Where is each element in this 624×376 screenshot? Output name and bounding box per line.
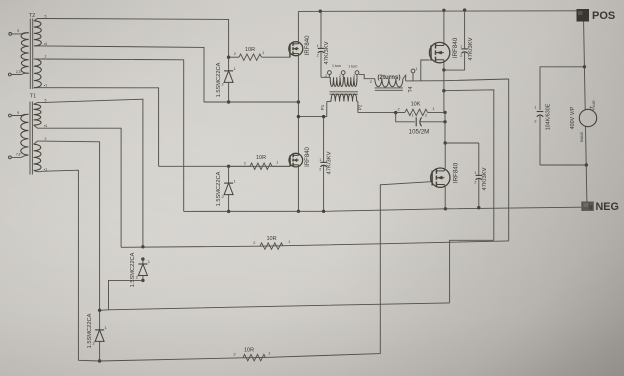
label T3 1 turn a (332, 64, 341, 68)
svg-text:▪4: ▪4 (44, 124, 47, 128)
inductor T4 winding (375, 79, 403, 87)
node bus/R5 junction (319, 10, 322, 13)
svg-text:2: 2 (317, 54, 319, 58)
wire Q1 drain to top bus (297, 11, 299, 42)
label lamp plug right (592, 100, 596, 110)
wire row A (121, 241, 509, 247)
wire M2 gate row (159, 165, 291, 167)
svg-text:1: 1 (534, 106, 536, 110)
svg-text:3: 3 (353, 74, 355, 78)
svg-text:1.5SMC22CA: 1.5SMC22CA (130, 252, 136, 287)
wire T2 pin2 to M2 source row (41, 59, 184, 211)
svg-text:1: 1 (474, 171, 476, 175)
svg-text:T1: T1 (30, 94, 36, 100)
wire bottom row (78, 354, 380, 361)
svg-text:1: 1 (432, 107, 434, 111)
wire bottom bus NEG rail (184, 207, 582, 211)
label T4 (408, 86, 414, 92)
node M1 gate junction (227, 56, 230, 59)
svg-text:9: 9 (17, 29, 19, 33)
wire Q4 drain lead (444, 143, 446, 168)
svg-text:2: 2 (474, 181, 476, 185)
svg-text:POS: POS (592, 10, 615, 22)
wire T4 row to Q3 gate (406, 79, 509, 81)
wire Q1 source to row (297, 56, 299, 103)
transformer T1 pin 2 lead (34, 137, 47, 144)
svg-text:2: 2 (233, 353, 235, 357)
transformer T1 primary bottom terminal (9, 152, 29, 158)
svg-text:2: 2 (339, 74, 341, 78)
label R6 (327, 151, 333, 174)
node R8 bottom junction (477, 206, 480, 209)
svg-text:2: 2 (253, 241, 255, 245)
resistor R8 47K/3KV (Q4) (474, 143, 482, 208)
transformer T1 pin 1 lead (34, 168, 48, 172)
transformer T1 label (30, 94, 36, 100)
wire source jog row (450, 240, 494, 303)
svg-text:T4: T4 (408, 86, 414, 92)
svg-text:1.5SMC22CA: 1.5SMC22CA (216, 171, 222, 206)
wire M1 source row (204, 101, 298, 103)
svg-text:47K/3KV: 47K/3KV (482, 167, 488, 190)
transformer T2 primary bottom terminal (8, 70, 28, 76)
resistor R9 10K (397, 102, 434, 116)
node R6 bottom junction (322, 210, 325, 213)
transformer T1 secondary winding B (34, 144, 41, 170)
wire T4 left link to T3 (359, 74, 375, 84)
transformer T2 label (29, 13, 35, 19)
capacitor C1 105/2M (396, 113, 445, 136)
svg-text:104K/630E: 104K/630E (546, 103, 552, 130)
wire T3 P1 lead (320, 102, 327, 117)
node Q2 drain junction (297, 115, 300, 118)
wire D3 bottom jog (109, 280, 143, 309)
transformer T1 primary top terminal (9, 111, 29, 117)
transformer T2 secondary winding B (34, 59, 41, 88)
svg-text:47K/3KV: 47K/3KV (327, 151, 333, 174)
svg-text:PLUG: PLUG (592, 100, 596, 110)
svg-text:1 turn: 1 turn (348, 64, 357, 68)
node D1 anode junction (227, 100, 230, 103)
svg-text:2,3: 2,3 (16, 70, 21, 74)
node Q4 drain junction (444, 141, 447, 144)
transformer T2 pin 1 lead (34, 84, 47, 88)
svg-text:T2: T2 (29, 13, 35, 19)
transformer T1 core (30, 102, 32, 175)
terminal T3 pin b (339, 71, 345, 78)
node R6 top junction (322, 115, 325, 118)
wire Q3 drain to bus (443, 10, 445, 43)
svg-text:▪4: ▪4 (44, 42, 47, 46)
node cap row right junction (443, 120, 446, 123)
svg-text:105/2M: 105/2M (409, 129, 430, 136)
svg-text:2: 2 (234, 52, 236, 56)
label D4 (87, 313, 93, 348)
node M1 source junction (297, 100, 300, 103)
wire row A riser to Q3 gate row (508, 79, 510, 241)
node bus/Q3 drain junction (442, 9, 445, 12)
node 10K right junction (443, 111, 446, 114)
svg-text:2: 2 (460, 54, 462, 58)
label T3 1 turn b (348, 64, 357, 68)
node 10K left junction (394, 111, 397, 114)
transformer T2 pin 5 lead (34, 15, 47, 21)
wire T1 pin4 to row A corner (41, 128, 121, 247)
svg-text:1 turn: 1 turn (332, 64, 341, 68)
wire Q4 source lead (444, 187, 446, 209)
svg-text:2: 2 (425, 113, 427, 117)
transformer T1 primary winding (21, 114, 29, 155)
transformer T2 pin 4 lead (34, 42, 47, 46)
svg-text:2: 2 (45, 55, 47, 59)
terminal T3 pin a (325, 71, 331, 78)
label Q3 (452, 37, 459, 58)
node output top junction (583, 65, 586, 68)
wire row B (100, 303, 450, 310)
wire T3 top left end (321, 76, 330, 78)
label R5 (324, 41, 330, 64)
transformer T2 primary winding (21, 33, 29, 74)
wire Q3 gate riser (421, 60, 430, 81)
transformer T2 primary top terminal (9, 29, 29, 35)
node D4 top junction (98, 309, 101, 312)
node D2 anode junction (227, 210, 230, 213)
label Q2 (305, 147, 311, 167)
svg-text:9: 9 (17, 111, 19, 115)
svg-text:2: 2 (319, 168, 321, 172)
svg-text:10R: 10R (256, 155, 266, 161)
node D3 bottom junction (141, 279, 144, 282)
svg-text:1: 1 (319, 158, 321, 162)
wire Q2 drain row to T3 P1 (298, 116, 327, 118)
wire T1 pin5 to diode D3 top (41, 99, 143, 247)
svg-text:10R: 10R (245, 47, 255, 53)
label NEG (596, 201, 619, 213)
svg-text:10R: 10R (244, 347, 254, 353)
svg-text:1: 1 (288, 240, 290, 244)
svg-text:IRF840: IRF840 (305, 147, 311, 167)
node D3 top junction (141, 245, 144, 248)
label R8 (482, 167, 488, 190)
svg-text:1: 1 (262, 51, 264, 55)
svg-text:2: 2 (397, 108, 399, 112)
svg-text:1: 1 (411, 113, 413, 117)
label lamp (570, 106, 576, 129)
svg-text:47K/3KV: 47K/3KV (468, 37, 474, 60)
wire T2 pin4 to M1 source row (41, 46, 204, 102)
svg-text:47K/3KV: 47K/3KV (324, 41, 330, 64)
transformer T1 secondary winding A (34, 104, 41, 125)
wire T2 pin5 to M1 gate node (41, 19, 229, 58)
label D3 (130, 252, 136, 287)
node Q3 source junction (442, 68, 445, 71)
svg-text:IRF840: IRF840 (452, 37, 459, 58)
wire Q1/Q2 column (297, 102, 299, 154)
diode D2 1.5SMC22CA (221, 166, 236, 211)
transistor Q4 IRF840 (bottom-right) (431, 168, 450, 187)
diode D4 1.5SMC22CA (92, 310, 107, 361)
wire T3 top mid link (343, 76, 344, 78)
svg-text:1: 1 (268, 352, 270, 356)
transformer T2 pin 2 lead (34, 55, 47, 59)
svg-text:NEG: NEG (596, 201, 619, 213)
wire output vertical (584, 22, 587, 202)
terminal T4 output pin (411, 67, 417, 81)
wire T1 pin1 to bottom row corner (41, 170, 78, 360)
svg-text:1.5SMC22CA: 1.5SMC22CA (216, 62, 222, 97)
svg-text:2: 2 (325, 74, 327, 78)
svg-text:1.5SMC22CA: 1.5SMC22CA (87, 313, 93, 348)
svg-text:2: 2 (244, 161, 246, 165)
node M2 gate junction (227, 165, 230, 168)
wire Q3 source to R7 (444, 69, 465, 71)
svg-text:2: 2 (370, 80, 372, 84)
transistor Q1 IRF840 (top-center) (289, 42, 303, 58)
wire 10K right to column (396, 111, 445, 113)
resistor R3 10R (row A) (253, 236, 290, 249)
wire Q3 source down (443, 62, 445, 90)
label D1 (216, 62, 222, 97)
resistor R2 10R (M2 gate) (244, 155, 279, 169)
svg-text:▪1: ▪1 (44, 84, 47, 88)
wire R2 leads (229, 165, 291, 167)
svg-text:1: 1 (460, 45, 462, 49)
inductor T3 top winding 1turn a (330, 77, 343, 86)
svg-text:2: 2 (45, 137, 47, 141)
terminal POS square (577, 9, 590, 22)
transformer T2 core (30, 19, 32, 90)
resistor R6 47K/3KV (Q2) (319, 117, 327, 212)
resistor R5 47K/3KV (Q1) (317, 11, 325, 77)
transformer T1 pin 4 lead (34, 124, 48, 128)
inductor T3 top winding 1turn b (345, 77, 357, 86)
svg-text:P2: P2 (358, 104, 363, 110)
svg-text:7,8: 7,8 (16, 152, 21, 156)
label Q1 (305, 35, 311, 55)
diode D3 1.5SMC22CA (136, 257, 151, 280)
svg-text:IRF840: IRF840 (453, 162, 460, 183)
svg-text:1: 1 (416, 67, 418, 71)
svg-text:1: 1 (276, 160, 278, 164)
label POS (592, 10, 615, 22)
wire top bus POS (298, 10, 576, 13)
svg-text:P1: P1 (320, 104, 325, 110)
diode D1 1.5SMC22CA (221, 57, 236, 102)
wire Q3 source row (444, 90, 494, 241)
node Q4 source junction (444, 207, 447, 210)
svg-text:10R: 10R (266, 236, 276, 242)
transistor Q3 IRF840 (top-right) (429, 42, 449, 62)
transformer T1 pin 5 lead (34, 99, 47, 105)
resistor R4 10R (bottom row) (233, 347, 270, 361)
wire Q4 drain jog to R8 (445, 142, 479, 144)
inductor T3 core (329, 92, 358, 94)
svg-text:5: 5 (45, 15, 47, 19)
wire Q3-source column to Q4 drain (444, 91, 445, 143)
label lamp plug left (580, 132, 584, 143)
wire T2 pin1 to M2 gate corner (41, 88, 159, 167)
svg-text:2: 2 (534, 120, 536, 124)
transformer T2 secondary winding A (34, 21, 41, 46)
svg-text:1: 1 (317, 44, 319, 48)
node D4 bottom junction (98, 359, 101, 362)
wire T3 P2 lead (358, 102, 363, 113)
capacitor C2 104K/630E branch (534, 67, 586, 165)
wire Q2 source to bottom bus (297, 167, 299, 212)
svg-text:MAUG: MAUG (580, 132, 584, 143)
label R7 (468, 37, 474, 60)
resistor R7 47K/3KV (Q3) (460, 10, 468, 70)
wire T1 pin2 to row B corner (41, 141, 100, 310)
resistor R1 10R (M1 gate) (234, 47, 265, 61)
transistor Q2 IRF840 (center) (289, 153, 303, 167)
svg-text:400V V/P: 400V V/P (570, 106, 576, 129)
inductor T4 core (375, 88, 403, 90)
inductor T3 bottom winding (327, 94, 358, 102)
terminal T3 pin c (353, 71, 359, 78)
svg-text:10K: 10K (411, 102, 421, 108)
node Q3 source row junction (442, 89, 445, 92)
wire Q4 gate row (380, 182, 431, 354)
label Q4 (453, 162, 460, 183)
node bus/R7 junction (463, 8, 466, 11)
wire T4 right end (403, 75, 406, 81)
lamp 400V indicator (579, 105, 596, 127)
wire P2 to 10K (358, 112, 396, 114)
label T4 2turns (377, 74, 400, 81)
node output bottom junction (585, 163, 588, 166)
label D2 (216, 171, 222, 206)
terminal NEG square (581, 202, 594, 211)
svg-text:IRF840: IRF840 (305, 35, 311, 55)
node Q2 source junction (297, 210, 300, 213)
wire R1 to M1 gate (229, 56, 291, 58)
label C2 (546, 103, 552, 130)
